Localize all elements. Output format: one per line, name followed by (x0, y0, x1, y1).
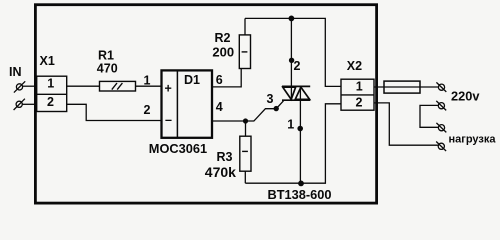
svg-text:200: 200 (212, 45, 234, 60)
triac gate pin 3 dot (274, 106, 279, 111)
terminal load a (436, 123, 446, 132)
wire R1 to D1 pin1 (136, 85, 161, 87)
jumper wire terminals 2-3 (420, 105, 438, 127)
svg-text:R2: R2 (215, 31, 231, 45)
svg-text:R3: R3 (217, 150, 233, 164)
optocoupler D1 MOC3061 (162, 70, 213, 139)
terminal input 2 (14, 99, 25, 110)
svg-text:2: 2 (356, 96, 363, 110)
wire triac MT1 down (299, 86, 301, 183)
svg-text:MOC3061: MOC3061 (149, 141, 207, 156)
wire X1.1 to R1 (67, 85, 100, 87)
svg-text:D1: D1 (184, 73, 200, 87)
triac VS1 BT138-600 (282, 86, 310, 100)
svg-text:1: 1 (356, 80, 363, 94)
wire pin4 node to R3 (245, 121, 247, 136)
resistor R2 (239, 35, 250, 69)
wire IN2 to X1.2 (22, 103, 36, 105)
svg-text:–: – (165, 113, 172, 127)
wire R3 to bottom rail (244, 171, 246, 183)
wire IN1 to X1.1 (23, 85, 36, 87)
bottom rail wire (245, 104, 341, 183)
resistor R3 (240, 136, 251, 171)
connector X2 (341, 79, 374, 110)
junction node top rail (289, 16, 295, 22)
svg-text:470: 470 (97, 62, 118, 76)
svg-text:IN: IN (9, 65, 22, 79)
svg-text:1: 1 (47, 77, 54, 91)
svg-text:220v: 220v (451, 89, 480, 104)
svg-text:BT138-600: BT138-600 (268, 187, 332, 202)
wire X1.2 to D1 pin2 (67, 104, 161, 120)
svg-text:2: 2 (144, 103, 151, 117)
svg-text:X1: X1 (40, 54, 55, 68)
svg-text:X2: X2 (347, 59, 362, 73)
svg-text:2: 2 (294, 59, 301, 73)
fuse FU1 (384, 81, 420, 93)
wire X2.2 to load terminal (374, 103, 438, 145)
gate wire to triac (246, 101, 284, 121)
terminal load b (436, 142, 446, 152)
connector X1 (37, 76, 67, 111)
terminal 220v neutral (436, 101, 446, 111)
svg-text:R1: R1 (98, 49, 114, 63)
svg-text:2: 2 (47, 95, 54, 109)
terminal input 1 (14, 81, 25, 92)
wire R2 to top rail (244, 18, 246, 35)
svg-text:6: 6 (216, 73, 223, 87)
wire D1 pin4 to gate node (213, 120, 246, 122)
top rail wire (245, 18, 341, 86)
svg-text:1: 1 (144, 74, 151, 88)
svg-text:+: + (165, 82, 172, 96)
svg-text:1: 1 (287, 118, 294, 132)
resistor R1 (100, 81, 136, 91)
svg-text:3: 3 (267, 92, 274, 106)
svg-text:нагрузка: нагрузка (449, 133, 497, 145)
schematic boundary frame (35, 5, 376, 203)
svg-text:4: 4 (216, 100, 223, 114)
wire top rail to triac MT2 (290, 18, 292, 100)
triac pin 2 dot (289, 58, 294, 63)
junction node bottom rail (298, 181, 304, 187)
junction node pin4 (243, 118, 248, 123)
terminal 220v line (436, 82, 446, 92)
triac pin 1 dot (297, 126, 303, 132)
svg-text:470k: 470k (205, 164, 236, 180)
wire X2.1 to fuse (374, 86, 439, 88)
wire D1 pin6 to R2 (213, 69, 241, 87)
